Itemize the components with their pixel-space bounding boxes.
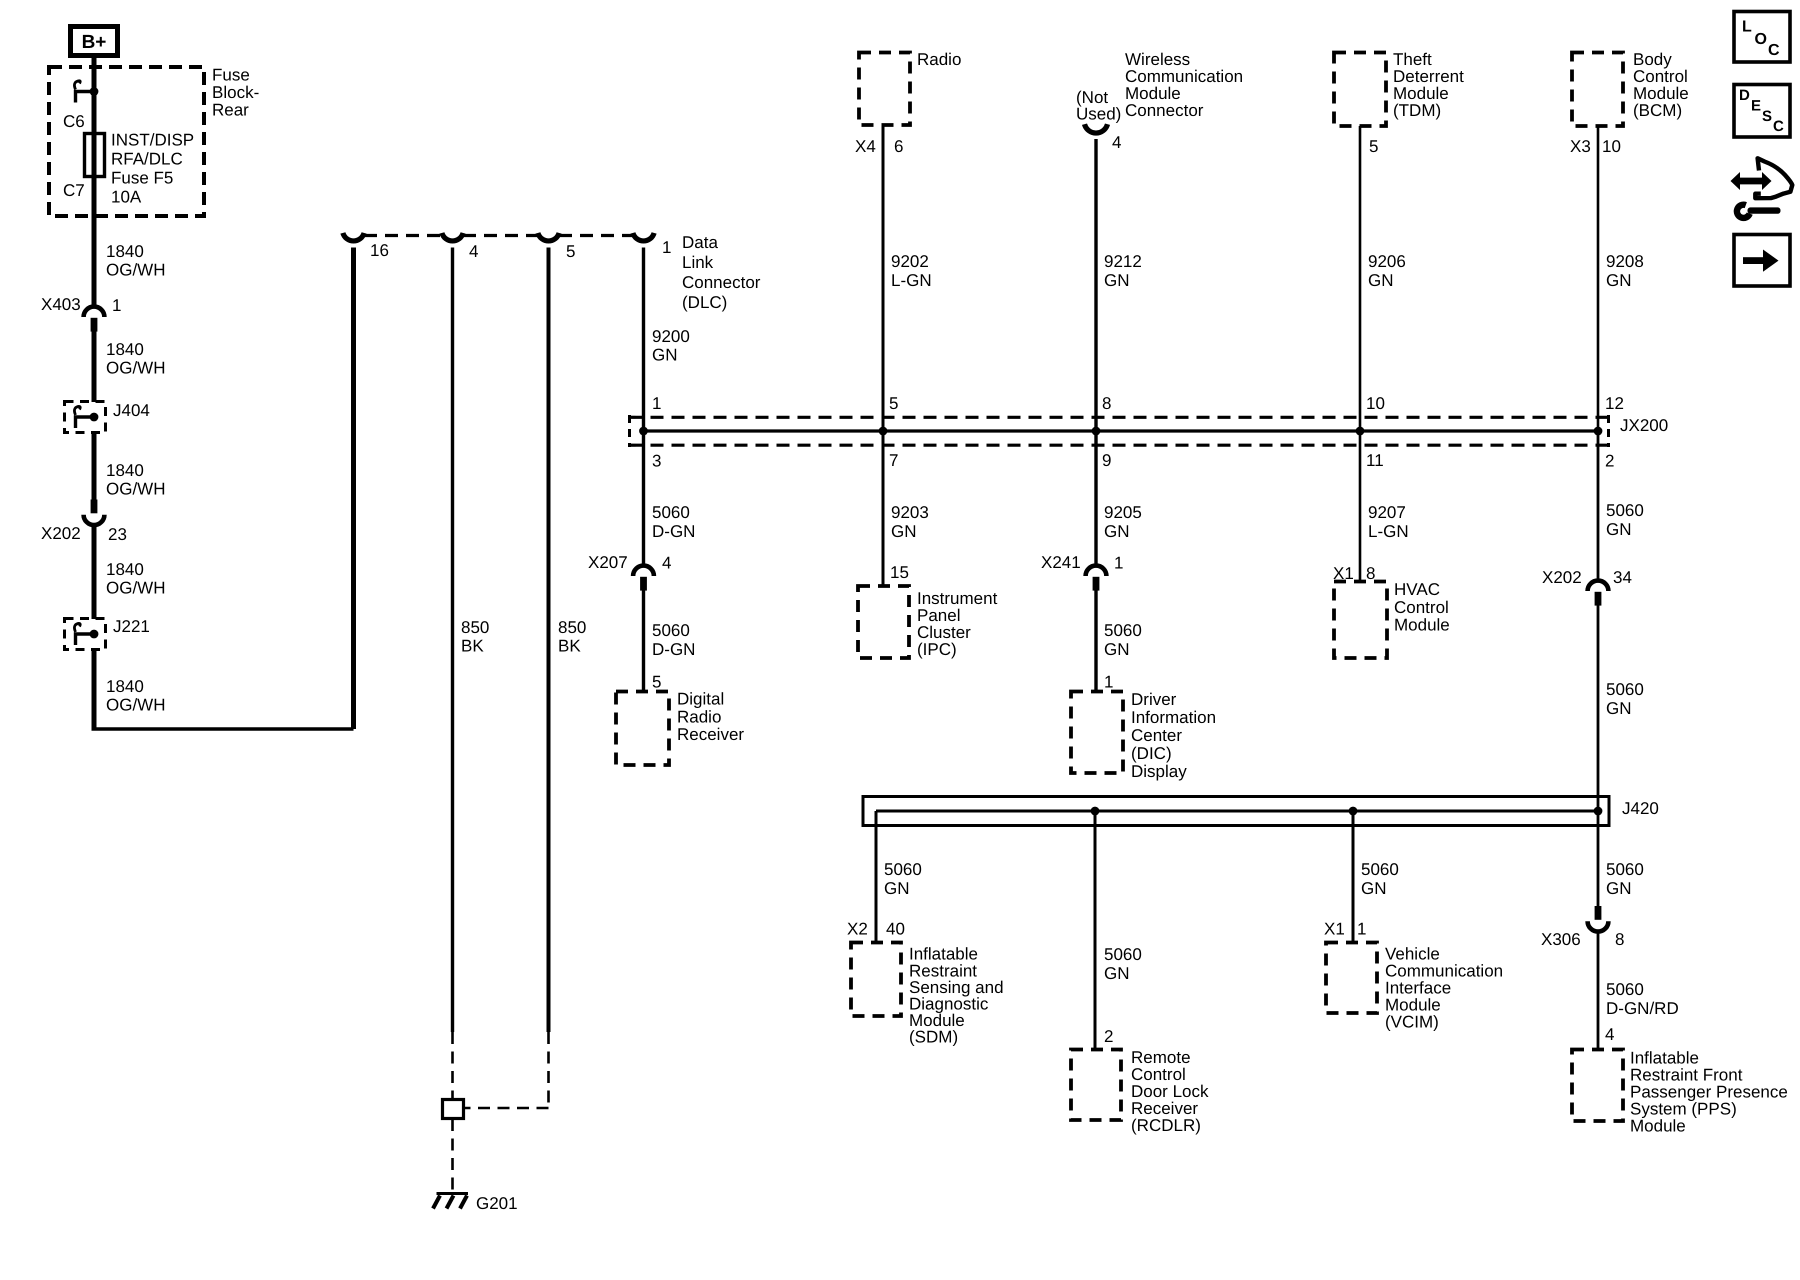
wire 5060 GN X241 to DIC (1094, 591, 1097, 692)
svg-text:X1: X1 (1324, 920, 1345, 939)
junction JX200 at pin12 (1594, 427, 1603, 436)
wire 5060 GN J420 to SDM (875, 811, 878, 942)
svg-text:X306: X306 (1541, 930, 1581, 949)
svg-text:Connector: Connector (1125, 101, 1204, 120)
svg-text:D: D (1739, 87, 1750, 104)
svg-text:4: 4 (1605, 1025, 1614, 1044)
svg-text:D-GN/RD: D-GN/RD (1606, 999, 1679, 1018)
wire 5060 GN J420 to X306 (1597, 811, 1600, 906)
svg-text:INST/DISP: INST/DISP (111, 131, 194, 150)
svg-text:C6: C6 (63, 112, 85, 131)
svg-text:Used): Used) (1076, 105, 1121, 124)
module Digital Radio Receiver dashed box (616, 692, 669, 766)
svg-text:3: 3 (652, 452, 661, 471)
svg-text:O: O (1755, 31, 1767, 48)
wire 5060 D-GN JX200 to X207 (642, 431, 645, 566)
svg-text:J221: J221 (113, 617, 150, 636)
svg-text:9200: 9200 (652, 327, 690, 346)
svg-text:Driver: Driver (1131, 690, 1177, 709)
junction J420 at RCDLR (1091, 807, 1100, 816)
svg-text:1840: 1840 (106, 340, 144, 359)
svg-text:BK: BK (558, 637, 581, 656)
bus JX200 dashed shell (630, 416, 1612, 419)
svg-text:850: 850 (558, 618, 586, 637)
svg-text:GN: GN (1606, 879, 1632, 898)
next-page arrow box (1734, 235, 1790, 287)
svg-text:Radio: Radio (917, 50, 961, 69)
module HVAC dashed box (1334, 582, 1387, 659)
svg-text:X241: X241 (1041, 553, 1081, 572)
svg-text:5060: 5060 (1606, 860, 1644, 879)
splice J221 (65, 619, 106, 650)
svg-text:OG/WH: OG/WH (106, 359, 166, 378)
svg-text:Fuse F5: Fuse F5 (111, 169, 173, 188)
svg-text:J404: J404 (113, 401, 150, 420)
svg-text:OG/WH: OG/WH (106, 480, 166, 499)
module RCDLR dashed box (1071, 1050, 1121, 1121)
svg-text:850: 850 (461, 618, 489, 637)
svg-text:HVAC: HVAC (1394, 580, 1440, 599)
svg-text:7: 7 (889, 451, 898, 470)
wireless module connector cavity (1085, 124, 1108, 133)
svg-text:9: 9 (1102, 451, 1111, 470)
connector X306 inline (1595, 906, 1602, 920)
svg-text:16: 16 (370, 241, 389, 260)
svg-text:Data: Data (682, 233, 718, 252)
svg-text:GN: GN (652, 346, 678, 365)
svg-text:D-GN: D-GN (652, 640, 695, 659)
svg-text:X202: X202 (41, 524, 81, 543)
svg-text:(DLC): (DLC) (682, 293, 727, 312)
module DIC dashed box (1071, 692, 1123, 774)
svg-text:(RCDLR): (RCDLR) (1131, 1116, 1201, 1135)
svg-text:9205: 9205 (1104, 503, 1142, 522)
module BCM dashed box (1572, 53, 1623, 127)
svg-text:G201: G201 (476, 1194, 518, 1213)
svg-text:5060: 5060 (1606, 501, 1644, 520)
svg-text:5060: 5060 (1606, 980, 1644, 999)
svg-text:OG/WH: OG/WH (106, 579, 166, 598)
svg-text:J420: J420 (1622, 799, 1659, 818)
svg-text:C7: C7 (63, 181, 85, 200)
wire B+ feed down left column (92, 58, 97, 307)
wire 9203 GN JX200 to IPC (882, 431, 885, 586)
LOC reference box (1734, 12, 1790, 63)
svg-text:5060: 5060 (1104, 945, 1142, 964)
svg-text:5: 5 (566, 242, 575, 261)
fuse F5 body (85, 134, 105, 177)
dashed wire to ground splice box (451, 1032, 454, 1098)
wire 5060 GN X202 to J420 (1597, 606, 1600, 812)
svg-text:8: 8 (1615, 930, 1624, 949)
wire 5060 D-GN X207 to receiver (642, 591, 645, 692)
svg-text:Rear: Rear (212, 101, 249, 120)
svg-text:1840: 1840 (106, 242, 144, 261)
svg-text:8: 8 (1102, 394, 1111, 413)
svg-text:4: 4 (662, 554, 671, 573)
bus JX200 conductor (644, 429, 1599, 432)
svg-text:BK: BK (461, 637, 484, 656)
wire 1840 below X403 (92, 332, 97, 403)
svg-text:JX200: JX200 (1620, 416, 1668, 435)
wire 9200 GN DLC pin1 to JX200 (642, 248, 645, 432)
svg-text:23: 23 (108, 525, 127, 544)
svg-text:5: 5 (1369, 137, 1378, 156)
svg-text:GN: GN (1368, 271, 1394, 290)
svg-text:34: 34 (1613, 568, 1632, 587)
svg-text:15: 15 (890, 563, 909, 582)
svg-text:Center: Center (1131, 726, 1182, 745)
svg-text:GN: GN (1606, 520, 1632, 539)
DLC connector cavity 5 (538, 233, 559, 241)
svg-text:GN: GN (1361, 879, 1387, 898)
ground splice box (443, 1100, 464, 1119)
svg-text:GN: GN (891, 522, 917, 541)
wire 5060 D-GN/RD X306 to PPS (1597, 934, 1600, 1050)
svg-text:L: L (1742, 19, 1752, 36)
junction J420 at PPS (1594, 807, 1603, 816)
service icon vehicle outline (1755, 158, 1792, 198)
svg-text:Digital: Digital (677, 690, 724, 709)
DLC connector cavity 1 (633, 233, 654, 241)
svg-text:9203: 9203 (891, 503, 929, 522)
svg-text:Information: Information (1131, 708, 1216, 727)
svg-text:2: 2 (1605, 452, 1614, 471)
svg-text:X202: X202 (1542, 568, 1582, 587)
wire 850 BK from DLC pin 4 (451, 248, 454, 1033)
svg-text:GN: GN (1606, 271, 1632, 290)
svg-text:9206: 9206 (1368, 252, 1406, 271)
DESC reference box (1734, 85, 1790, 138)
svg-text:L-GN: L-GN (1368, 522, 1409, 541)
wire 9207 L-GN JX200 to HVAC (1359, 431, 1362, 581)
junction on B+ feed at clip (90, 87, 99, 96)
wire 9212 GN wireless to JX200 (1094, 139, 1097, 431)
svg-text:9202: 9202 (891, 252, 929, 271)
svg-text:OG/WH: OG/WH (106, 261, 166, 280)
svg-text:10: 10 (1366, 394, 1385, 413)
svg-text:12: 12 (1605, 394, 1624, 413)
power symbol B+ (71, 27, 118, 56)
svg-text:X403: X403 (41, 295, 81, 314)
splice J404 (65, 402, 106, 433)
svg-text:(TDM): (TDM) (1393, 101, 1441, 120)
svg-text:9212: 9212 (1104, 252, 1142, 271)
wire corner run to DLC pin 16 branch (92, 727, 354, 730)
svg-text:S: S (1762, 108, 1772, 125)
svg-text:1: 1 (1104, 673, 1113, 692)
svg-text:Module: Module (1630, 1117, 1686, 1136)
module TDM dashed box (1334, 53, 1386, 127)
wire 5060 GN J420 to RCDLR (1094, 811, 1097, 1049)
svg-text:D-GN: D-GN (652, 522, 695, 541)
svg-text:40: 40 (886, 920, 905, 939)
service icon wrench (1737, 205, 1750, 218)
connector X403 pin 1 inline (84, 307, 105, 317)
dashed wire pin5 drop (547, 1032, 550, 1108)
svg-text:1840: 1840 (106, 461, 144, 480)
svg-text:2: 2 (1104, 1027, 1113, 1046)
wire 5060 GN JX200 to X202 (1597, 431, 1600, 581)
wire 1840 below J404 (92, 433, 97, 501)
svg-text:5060: 5060 (652, 503, 690, 522)
module SDM dashed box (851, 943, 901, 1017)
svg-text:Link: Link (682, 253, 714, 272)
svg-text:11: 11 (1366, 451, 1384, 470)
wire 1840 below J221 (92, 650, 97, 730)
junction JX200 at pin10 (1356, 427, 1365, 436)
svg-text:(VCIM): (VCIM) (1385, 1013, 1439, 1032)
svg-text:GN: GN (1104, 271, 1130, 290)
svg-text:C: C (1768, 42, 1780, 59)
svg-text:X4: X4 (855, 137, 876, 156)
svg-text:1: 1 (1114, 554, 1123, 573)
svg-text:Display: Display (1131, 762, 1187, 781)
svg-text:Control: Control (1394, 598, 1449, 617)
svg-text:X2: X2 (847, 920, 868, 939)
svg-text:Block-: Block- (212, 83, 259, 102)
svg-text:5: 5 (652, 673, 661, 692)
svg-text:X207: X207 (588, 553, 628, 572)
DLC connector cavity 4 (442, 233, 463, 241)
svg-text:5060: 5060 (884, 860, 922, 879)
svg-text:5060: 5060 (1104, 621, 1142, 640)
svg-text:C: C (1773, 118, 1784, 135)
svg-text:X3: X3 (1570, 137, 1591, 156)
svg-text:Module: Module (1394, 615, 1450, 634)
connector X241 inline (1086, 566, 1107, 576)
svg-text:5: 5 (889, 394, 898, 413)
svg-text:Radio: Radio (677, 707, 721, 726)
dashed wire splice box to ground (451, 1119, 454, 1191)
wire 1840 below X202 (92, 527, 97, 619)
svg-text:B+: B+ (82, 32, 107, 53)
wire DLC pin 16 riser (351, 248, 356, 730)
svg-text:(DIC): (DIC) (1131, 744, 1172, 763)
connector X207 inline (633, 566, 654, 576)
svg-text:E: E (1751, 98, 1761, 115)
wire 9202 L-GN Radio to JX200 (882, 125, 885, 431)
svg-text:5060: 5060 (1361, 860, 1399, 879)
svg-text:1: 1 (662, 238, 671, 257)
svg-text:(SDM): (SDM) (909, 1028, 958, 1047)
svg-text:5060: 5060 (652, 621, 690, 640)
dashed link 4 to 5 (463, 234, 538, 237)
junction JX200 at pin1 (639, 427, 648, 436)
svg-text:10: 10 (1602, 137, 1621, 156)
junction JX200 at pin8 (1092, 427, 1101, 436)
junction J420 at VCIM (1349, 807, 1358, 816)
svg-text:1: 1 (652, 394, 661, 413)
bus J420 shell (863, 797, 1609, 826)
DLC connector cavity 16 (343, 233, 364, 241)
svg-text:L-GN: L-GN (891, 271, 932, 290)
wire 850 BK from DLC pin 5 (547, 248, 551, 1033)
svg-text:GN: GN (1104, 640, 1130, 659)
dashed wire pin5 elbow to splice box (465, 1107, 549, 1110)
svg-text:GN: GN (884, 879, 910, 898)
connector X202 pin 34 inline (1588, 581, 1609, 591)
ground symbol G201 (437, 1192, 469, 1195)
svg-text:1840: 1840 (106, 677, 144, 696)
service icon double arrow (1731, 172, 1772, 190)
module IPC dashed box (858, 586, 909, 658)
svg-text:1: 1 (112, 296, 121, 315)
svg-text:1840: 1840 (106, 560, 144, 579)
svg-text:10A: 10A (111, 188, 142, 207)
svg-text:GN: GN (1104, 522, 1130, 541)
fuse block rear dashed box (49, 67, 204, 216)
svg-text:9208: 9208 (1606, 252, 1644, 271)
dashed link 5 to 1 (559, 234, 633, 237)
svg-text:1: 1 (1357, 920, 1366, 939)
module PPS dashed box (1572, 1050, 1623, 1122)
svg-text:Fuse: Fuse (212, 66, 250, 85)
connector X202 pin 23 inline (91, 500, 98, 514)
junction JX200 at pin5 (879, 427, 888, 436)
module Radio dashed box (859, 53, 910, 126)
svg-text:OG/WH: OG/WH (106, 696, 166, 715)
svg-text:4: 4 (1112, 133, 1121, 152)
dashed link 16 to 4 (364, 234, 442, 237)
svg-text:9207: 9207 (1368, 503, 1406, 522)
bus J420 conductor (876, 810, 1598, 813)
svg-text:Connector: Connector (682, 273, 761, 292)
wire 9206 GN TDM to JX200 (1359, 126, 1362, 431)
module VCIM dashed box (1326, 943, 1377, 1014)
wire 9205 GN JX200 to X241 (1094, 431, 1097, 566)
svg-text:Receiver: Receiver (677, 725, 744, 744)
wire 9208 GN BCM to JX200 (1597, 126, 1600, 431)
svg-text:(BCM): (BCM) (1633, 101, 1682, 120)
svg-text:4: 4 (469, 242, 478, 261)
svg-text:5060: 5060 (1606, 680, 1644, 699)
svg-text:GN: GN (1104, 964, 1130, 983)
svg-text:6: 6 (894, 137, 903, 156)
wire 5060 GN J420 to VCIM (1352, 811, 1355, 942)
svg-text:RFA/DLC: RFA/DLC (111, 150, 183, 169)
svg-text:(IPC): (IPC) (917, 640, 957, 659)
svg-text:GN: GN (1606, 699, 1632, 718)
bus clip hook inside fuse block (76, 92, 95, 103)
